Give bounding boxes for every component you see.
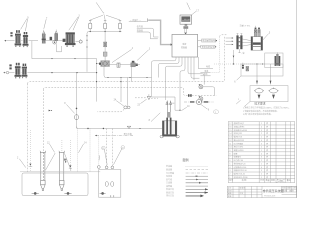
svg-text:9: 9 xyxy=(229,150,230,152)
svg-text:4: 4 xyxy=(261,126,262,128)
pump circle M1 xyxy=(196,99,201,104)
svg-text:3: 3 xyxy=(261,157,262,159)
svg-text:11: 11 xyxy=(229,143,231,145)
tank1 top line xyxy=(20,171,100,173)
cable comp on dashed xyxy=(188,94,190,97)
nozzle N1 xyxy=(254,88,264,99)
valve V3 with pump circle xyxy=(53,30,62,52)
svg-text:1: 1 xyxy=(261,177,262,179)
wire assembly drop xyxy=(233,50,235,64)
gauge G1 xyxy=(89,21,92,29)
inner dashed box xyxy=(45,87,216,95)
nozzle box xyxy=(250,86,288,102)
pump unit P1 left connector blocks xyxy=(10,32,12,36)
terminal plate stack xyxy=(236,34,242,50)
callout 23b xyxy=(140,99,146,103)
svg-text:3: 3 xyxy=(261,143,262,145)
flow meter label line xyxy=(129,18,148,22)
nozzle N2 xyxy=(269,88,279,99)
solenoid valve S1 xyxy=(199,84,215,96)
svg-text:15: 15 xyxy=(229,130,231,132)
wire right drop x96.6 xyxy=(96,59,98,102)
tiny valve near strainer2 xyxy=(64,159,67,163)
svg-text:12: 12 xyxy=(229,140,231,142)
stub label line a xyxy=(200,69,210,73)
heavy dash left xyxy=(190,101,194,102)
dash-dot pump line xyxy=(184,101,214,103)
page right edge xyxy=(296,0,298,198)
parts table rows text xyxy=(229,121,268,179)
wire x76.5 drop xyxy=(76,73,78,129)
check oval on x76.5 xyxy=(74,115,78,120)
callout 5 xyxy=(263,34,269,40)
tank2 dashed feeds xyxy=(107,129,113,167)
pump unit P1 motor-pump B xyxy=(23,32,29,47)
svg-text:总重: 总重 xyxy=(281,180,285,183)
wire pump loop box xyxy=(152,97,181,110)
drop to gauges 2 xyxy=(270,64,272,84)
wire suction line P1 xyxy=(6,40,38,42)
top fittings on cylinder xyxy=(254,26,260,37)
wire monitor cable arrow xyxy=(185,29,187,33)
valve W2 with actuator xyxy=(131,61,138,67)
node arrow left P1 xyxy=(4,40,6,42)
svg-text:3: 3 xyxy=(229,170,230,172)
wire bottom collector xyxy=(77,127,163,129)
solenoid valve S2 xyxy=(199,96,203,104)
tiny valve on x30 xyxy=(29,164,33,167)
callout 19 xyxy=(98,155,101,160)
strainer 2 xyxy=(59,151,65,191)
pump unit P2 connector blocks xyxy=(9,64,11,69)
svg-text:13: 13 xyxy=(229,137,231,139)
strainer 1 xyxy=(40,151,46,191)
svg-text:1: 1 xyxy=(229,177,230,179)
oval callout 2 xyxy=(213,110,218,114)
coupling lines xyxy=(243,39,251,46)
parts table header row xyxy=(229,178,291,183)
callout 8b xyxy=(151,113,160,122)
callout 6 xyxy=(201,104,208,109)
relief valve V1 xyxy=(42,30,46,43)
pipe diagonals into tank xyxy=(46,153,72,170)
filter vessel F1 xyxy=(63,32,76,46)
gauge G3 xyxy=(118,21,121,29)
wire manifold drop xyxy=(87,32,89,72)
callout 24 xyxy=(116,101,124,106)
thick signal line to controller xyxy=(148,20,171,44)
svg-text:1: 1 xyxy=(261,150,262,152)
svg-text:4: 4 xyxy=(261,140,262,142)
legend row 5 xyxy=(166,177,208,181)
wire header top line xyxy=(32,58,97,60)
top-right assembly input arrows xyxy=(226,37,234,45)
tank2 inner ovals xyxy=(105,182,108,187)
check valve V2 xyxy=(50,37,53,41)
valve W1 on branch xyxy=(117,63,120,67)
svg-text:2: 2 xyxy=(261,133,262,135)
svg-text:HY2016-018: HY2016-018 xyxy=(264,195,276,197)
svg-text:3: 3 xyxy=(261,130,262,132)
callout line top xyxy=(96,2,190,13)
svg-text:4: 4 xyxy=(261,167,262,169)
vent component on line xyxy=(242,63,244,69)
svg-text:16: 16 xyxy=(229,126,231,128)
tank area dotted verticals xyxy=(29,130,31,172)
callout 9 xyxy=(21,19,28,31)
callout 17 xyxy=(192,11,196,14)
title block labels xyxy=(228,186,296,198)
signal label B xyxy=(137,28,151,36)
dash-dot drain label line xyxy=(95,132,133,136)
assembly bottom marks xyxy=(238,49,240,52)
dashes from valve xyxy=(97,109,124,112)
callout 8a xyxy=(66,104,74,113)
callout 12 xyxy=(49,144,54,153)
legend row 7 xyxy=(166,184,208,188)
svg-text:技术要求: 技术要求 xyxy=(254,102,265,106)
wire W2 drop xyxy=(130,67,132,82)
wire F1 outlet with gauge circle xyxy=(76,41,80,43)
callout balloons 21 22 xyxy=(102,146,108,165)
svg-text:2: 2 xyxy=(261,174,262,176)
svg-text:7: 7 xyxy=(229,157,230,159)
callout 23 diagonals xyxy=(112,49,149,62)
pump unit P2 motor-pump D xyxy=(21,64,27,79)
title block xyxy=(227,186,297,197)
wire drop x121 xyxy=(120,78,122,103)
wire F1 inlet xyxy=(58,40,63,42)
wire signal merge xyxy=(150,36,158,39)
svg-text:1: 1 xyxy=(261,163,262,165)
callout nozzle box xyxy=(244,102,250,107)
tank2 body xyxy=(99,170,121,198)
heavy dash right xyxy=(204,101,208,102)
callout 10 xyxy=(181,107,187,111)
expansion tank box xyxy=(265,53,283,68)
legend row 1 xyxy=(166,164,208,168)
signal label A xyxy=(137,25,154,36)
callout 3 xyxy=(69,17,79,30)
dashed corner to assembly xyxy=(220,35,227,37)
svg-text:17: 17 xyxy=(229,123,231,125)
expansion vessel xyxy=(275,52,281,65)
svg-text:1: 1 xyxy=(261,137,262,139)
cylinder block xyxy=(251,37,263,51)
svg-text:工艺: 工艺 xyxy=(240,192,244,195)
controller bottom L label line xyxy=(198,57,213,69)
cable fan from controller bottom xyxy=(152,57,205,110)
tank2 inlet circles xyxy=(97,166,100,169)
callout 2 left xyxy=(19,159,25,168)
callout tiny 2 xyxy=(236,100,240,104)
submersible pump tank xyxy=(160,101,179,138)
tank1 drain dots xyxy=(32,192,39,195)
legend row 6 xyxy=(166,181,208,185)
dotted header line right xyxy=(214,63,265,65)
tank2 bottom marks xyxy=(111,195,114,197)
dashed signal vertical xyxy=(199,37,224,82)
wire cluster branch xyxy=(109,64,140,66)
legend row 8 xyxy=(166,187,208,191)
V valve on collector xyxy=(127,126,131,128)
svg-text:2: 2 xyxy=(229,174,230,176)
svg-text:3: 3 xyxy=(261,170,262,172)
valve group box xyxy=(241,64,283,76)
small valve in box xyxy=(246,66,249,71)
callout small left of box xyxy=(237,76,241,80)
svg-text:10: 10 xyxy=(229,147,231,149)
long dashed signal line left xyxy=(28,82,200,84)
tank2 drain dot xyxy=(100,192,106,195)
svg-text:4: 4 xyxy=(229,167,230,169)
wire V1-V2 line xyxy=(45,40,54,42)
svg-text:14: 14 xyxy=(229,133,231,135)
legend row 3 xyxy=(166,171,208,175)
dotted signal vertical xyxy=(211,37,220,73)
controller output label line 1 xyxy=(198,39,217,43)
svg-text:4: 4 xyxy=(261,153,262,155)
tiny arrow comp xyxy=(49,110,51,112)
svg-text:2: 2 xyxy=(261,160,262,162)
parts table frame xyxy=(228,122,295,183)
svg-text:1: 1 xyxy=(261,123,262,125)
tiny valve on x70.4 xyxy=(69,165,72,168)
wire gauge header xyxy=(89,29,122,32)
controller output label line 2 xyxy=(198,45,217,49)
controller box U-PLC xyxy=(172,34,198,57)
wire P2 suction line xyxy=(9,72,97,74)
svg-text:8: 8 xyxy=(229,153,230,155)
callout 1 converge lines xyxy=(90,15,120,20)
small valve at top right of cluster xyxy=(135,94,158,99)
svg-text:图例: 图例 xyxy=(183,157,189,162)
gauge G2 xyxy=(104,21,107,29)
monitor display U17 xyxy=(180,15,192,29)
wire P1 drain drop xyxy=(31,41,33,59)
wire drop x127.5 valve xyxy=(127,78,129,106)
main valve cluster xyxy=(96,32,109,78)
wire collector line xyxy=(106,77,152,79)
svg-text:5: 5 xyxy=(229,163,230,165)
callout 7 xyxy=(44,19,46,29)
legend row 10 xyxy=(166,194,204,198)
svg-text:2: 2 xyxy=(261,147,262,149)
svg-text:6: 6 xyxy=(229,160,230,162)
pump unit P1 motor-pump A xyxy=(15,30,22,47)
legend row 9 xyxy=(166,190,208,194)
drop to gauges 1 xyxy=(256,64,258,84)
svg-text:卷筒液压系统图: 卷筒液压系统图 xyxy=(263,188,284,193)
callout 14 xyxy=(78,144,83,153)
svg-text:↓M: ↓M xyxy=(172,102,175,105)
legend row 2 xyxy=(166,168,208,172)
legend row 4 xyxy=(166,174,208,178)
stub label line b xyxy=(200,72,210,76)
pump unit P2 motor-pump C xyxy=(15,63,21,79)
tank1 body xyxy=(22,173,88,196)
